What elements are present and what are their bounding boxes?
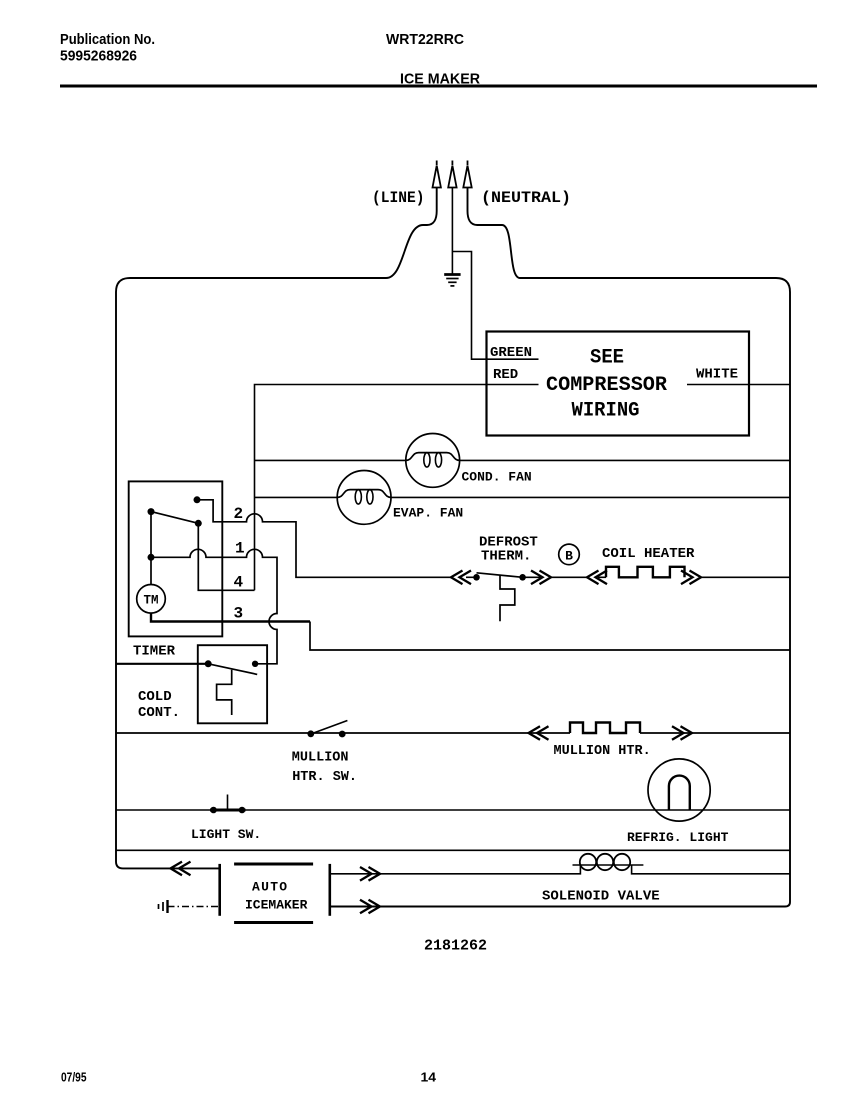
svg-text:14: 14 [421, 1070, 437, 1085]
svg-text:07/95: 07/95 [61, 1070, 87, 1085]
svg-text:2181262: 2181262 [424, 938, 487, 955]
svg-text:WHITE: WHITE [696, 367, 738, 383]
svg-text:Publication No.: Publication No. [60, 31, 155, 48]
svg-text:THERM.: THERM. [481, 549, 531, 565]
svg-text:MULLION: MULLION [292, 751, 349, 766]
svg-text:LIGHT SW.: LIGHT SW. [191, 827, 261, 842]
svg-text:COLD: COLD [138, 689, 172, 705]
svg-text:SOLENOID VALVE: SOLENOID VALVE [542, 889, 660, 905]
svg-text:AUTO: AUTO [252, 880, 288, 895]
svg-text:5995268926: 5995268926 [60, 48, 137, 65]
svg-text:1: 1 [235, 540, 245, 558]
svg-text:REFRIG. LIGHT: REFRIG. LIGHT [627, 830, 729, 845]
svg-text:(LINE): (LINE) [372, 189, 425, 207]
svg-text:SEE: SEE [590, 347, 624, 370]
svg-text:2: 2 [234, 505, 244, 523]
svg-text:CONT.: CONT. [138, 705, 180, 721]
svg-text:EVAP. FAN: EVAP. FAN [393, 506, 463, 521]
svg-text:RED: RED [493, 367, 518, 383]
svg-text:GREEN: GREEN [490, 345, 532, 361]
svg-text:COMPRESSOR: COMPRESSOR [546, 374, 667, 397]
svg-text:TIMER: TIMER [133, 644, 176, 660]
svg-text:MULLION HTR.: MULLION HTR. [554, 744, 651, 759]
svg-text:COND. FAN: COND. FAN [462, 470, 532, 485]
svg-text:WRT22RRC: WRT22RRC [386, 31, 464, 48]
svg-text:HTR. SW.: HTR. SW. [292, 770, 357, 785]
svg-text:ICEMAKER: ICEMAKER [245, 898, 308, 913]
svg-text:4: 4 [234, 574, 244, 592]
svg-text:(NEUTRAL): (NEUTRAL) [481, 189, 571, 207]
svg-text:COIL HEATER: COIL HEATER [602, 546, 695, 562]
svg-text:3: 3 [234, 605, 244, 623]
svg-text:WIRING: WIRING [572, 400, 640, 423]
svg-text:B: B [565, 549, 573, 564]
svg-text:TM: TM [143, 594, 158, 608]
